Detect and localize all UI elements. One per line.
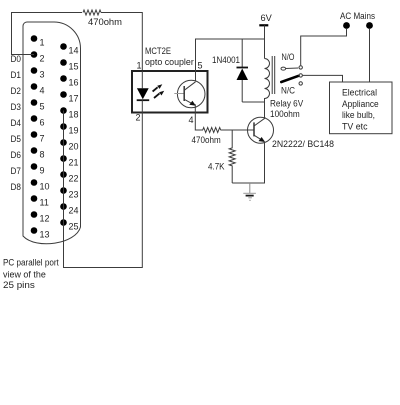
svg-text:3: 3 — [40, 70, 45, 80]
svg-text:2: 2 — [136, 113, 141, 123]
resistor R1 470ohm — [83, 10, 101, 15]
wire: J1 pin2 (D0) left and up to R1 — [12, 13, 83, 55]
svg-text:4: 4 — [189, 115, 194, 125]
svg-text:470ohm: 470ohm — [88, 17, 122, 27]
relay K1 N/O contact — [299, 66, 302, 69]
svg-text:N/O: N/O — [282, 52, 295, 62]
svg-text:AC Mains: AC Mains — [340, 11, 375, 21]
J1 pin 19 — [60, 123, 78, 135]
J1 pin 21 — [60, 155, 78, 167]
J1 pin 3 — [31, 67, 45, 79]
wire: U1 pin 4 down to R2 — [195, 104, 203, 130]
svg-text:23: 23 — [69, 190, 79, 200]
J1 pin 8 — [31, 147, 45, 159]
label U1 MCT2E opto coupler — [145, 46, 194, 67]
svg-text:D0: D0 — [11, 54, 22, 64]
svg-text:19: 19 — [69, 126, 79, 136]
J1 pin 24 — [60, 203, 78, 215]
svg-text:13: 13 — [40, 230, 50, 240]
svg-text:4: 4 — [40, 86, 45, 96]
J1 pin 4 — [31, 83, 45, 95]
resistor R3 4.7K — [229, 130, 235, 183]
svg-text:2: 2 — [40, 54, 45, 64]
connector J1 outline — [23, 22, 81, 244]
svg-text:opto coupler: opto coupler — [145, 57, 194, 67]
svg-text:D4: D4 — [11, 118, 22, 128]
relay K1 common contact — [299, 74, 302, 77]
J1 pin 13 — [31, 227, 50, 239]
J1 pin 25 — [60, 219, 78, 231]
svg-text:D7: D7 — [11, 166, 22, 176]
svg-text:10: 10 — [40, 182, 50, 192]
wire: ground bus J1 pins 18-25 — [63, 111, 65, 223]
svg-text:6V: 6V — [261, 13, 272, 23]
svg-text:D6: D6 — [11, 150, 22, 160]
J1 pin 17 — [60, 91, 78, 103]
label K1 Relay 6V 100ohm — [270, 99, 303, 120]
U1 light arrows — [153, 84, 165, 98]
svg-text:1: 1 — [40, 38, 45, 48]
U1 internal LED — [137, 71, 150, 113]
svg-text:N/C: N/C — [281, 86, 295, 96]
svg-text:16: 16 — [69, 78, 79, 88]
svg-text:TV etc: TV etc — [342, 121, 368, 131]
svg-text:24: 24 — [69, 206, 79, 216]
svg-text:11: 11 — [40, 198, 49, 208]
J1 pin 5 — [31, 99, 45, 111]
svg-text:25 pins: 25 pins — [3, 280, 35, 290]
svg-text:D2: D2 — [11, 86, 22, 96]
wire: D1 anode to Q1 collector — [242, 101, 264, 103]
svg-text:D5: D5 — [11, 134, 22, 144]
svg-text:1: 1 — [137, 61, 142, 71]
J1 pin 18 — [60, 107, 78, 119]
J1 pin 10 — [31, 179, 50, 191]
svg-text:Electrical: Electrical — [342, 88, 377, 98]
svg-text:470ohm: 470ohm — [192, 135, 221, 145]
label PC parallel port view of the 25 pins — [3, 258, 59, 291]
svg-text:D1: D1 — [11, 70, 22, 80]
relay K1 armature arm — [281, 76, 298, 82]
J1 pin 6 — [31, 115, 45, 127]
svg-text:MCT2E: MCT2E — [145, 46, 171, 56]
svg-text:15: 15 — [69, 62, 79, 72]
svg-text:1N4001: 1N4001 — [212, 55, 240, 65]
svg-text:2N2222/ BC148: 2N2222/ BC148 — [272, 139, 334, 149]
wire: AC mains right terminal down to appliance — [369, 29, 371, 82]
J1 pin 14 — [60, 43, 78, 55]
J1 pin 20 — [60, 139, 78, 151]
resistor R2 470ohm — [203, 128, 221, 133]
svg-text:21: 21 — [69, 158, 79, 168]
relay K1 armature ellipse — [281, 67, 286, 70]
J1 pin 22 — [60, 171, 78, 183]
wire: Q1 emitter down to ground rail — [232, 142, 264, 183]
J1 pin 11 — [31, 195, 49, 207]
J1 pin 15 — [60, 59, 78, 71]
svg-text:22: 22 — [69, 174, 79, 184]
wire: J1 pin25 down, right, up to U1 pin 2 — [64, 113, 143, 268]
svg-text:4.7K: 4.7K — [208, 162, 225, 172]
J1 pin 1 — [31, 35, 45, 47]
J1 pin 16 — [60, 75, 78, 87]
svg-text:25: 25 — [69, 222, 79, 232]
diode D1 1N4001 — [237, 39, 249, 102]
relay K1 armature upper link — [286, 67, 299, 70]
J1 pin 9 — [31, 163, 45, 175]
svg-text:5: 5 — [198, 61, 203, 71]
svg-text:100ohm: 100ohm — [270, 109, 300, 119]
relay K1 N/C contact — [299, 82, 302, 85]
svg-text:PC parallel port: PC parallel port — [3, 258, 59, 268]
svg-text:Appliance: Appliance — [342, 99, 379, 109]
wire: U1 pin 5 up to +6V rail — [196, 39, 265, 81]
opto-coupler U1 MCT2E box — [132, 71, 208, 113]
svg-text:18: 18 — [69, 110, 79, 120]
power +6V symbol — [259, 25, 268, 58]
AC mains terminal left — [343, 22, 350, 29]
relay K1 coil — [265, 59, 270, 119]
label Electrical Appliance like bulb, TV etc — [342, 88, 379, 132]
svg-text:D3: D3 — [11, 102, 22, 112]
svg-text:9: 9 — [40, 166, 45, 176]
svg-text:like bulb,: like bulb, — [342, 110, 375, 120]
svg-text:Relay 6V: Relay 6V — [270, 99, 303, 109]
U1 phototransistor — [174, 80, 205, 108]
J1 pin 23 — [60, 187, 78, 199]
svg-text:view of the: view of the — [3, 270, 46, 280]
svg-text:6: 6 — [40, 118, 45, 128]
wire: R1 to U1 pin 1 — [101, 13, 142, 72]
svg-text:12: 12 — [40, 214, 50, 224]
wire: R2 to Q1 base — [221, 129, 255, 131]
AC mains terminal right — [366, 22, 373, 29]
svg-text:17: 17 — [69, 94, 79, 104]
svg-text:8: 8 — [40, 150, 45, 160]
svg-text:14: 14 — [69, 46, 79, 56]
wire: N/O contact up to AC mains left terminal — [301, 29, 347, 65]
wire: relay common to appliance — [303, 75, 343, 82]
ground symbol — [243, 183, 256, 200]
svg-text:D8: D8 — [11, 182, 22, 192]
svg-text:5: 5 — [40, 102, 45, 112]
relay K1 core — [272, 56, 275, 94]
svg-text:20: 20 — [69, 142, 79, 152]
svg-text:7: 7 — [40, 134, 45, 144]
appliance box — [330, 82, 393, 134]
J1 pin 2 — [31, 51, 45, 63]
J1 pin 7 — [31, 131, 45, 143]
transistor Q1 — [248, 117, 274, 143]
J1 pin 12 — [31, 211, 50, 223]
